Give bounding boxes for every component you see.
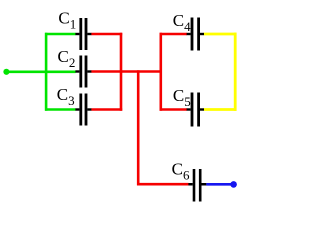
svg-text:C5: C5 — [173, 86, 191, 109]
svg-text:C2: C2 — [58, 47, 76, 70]
svg-text:C6: C6 — [172, 160, 190, 183]
svg-text:C4: C4 — [173, 11, 191, 34]
svg-text:C1: C1 — [58, 9, 76, 32]
svg-text:C3: C3 — [57, 85, 75, 108]
